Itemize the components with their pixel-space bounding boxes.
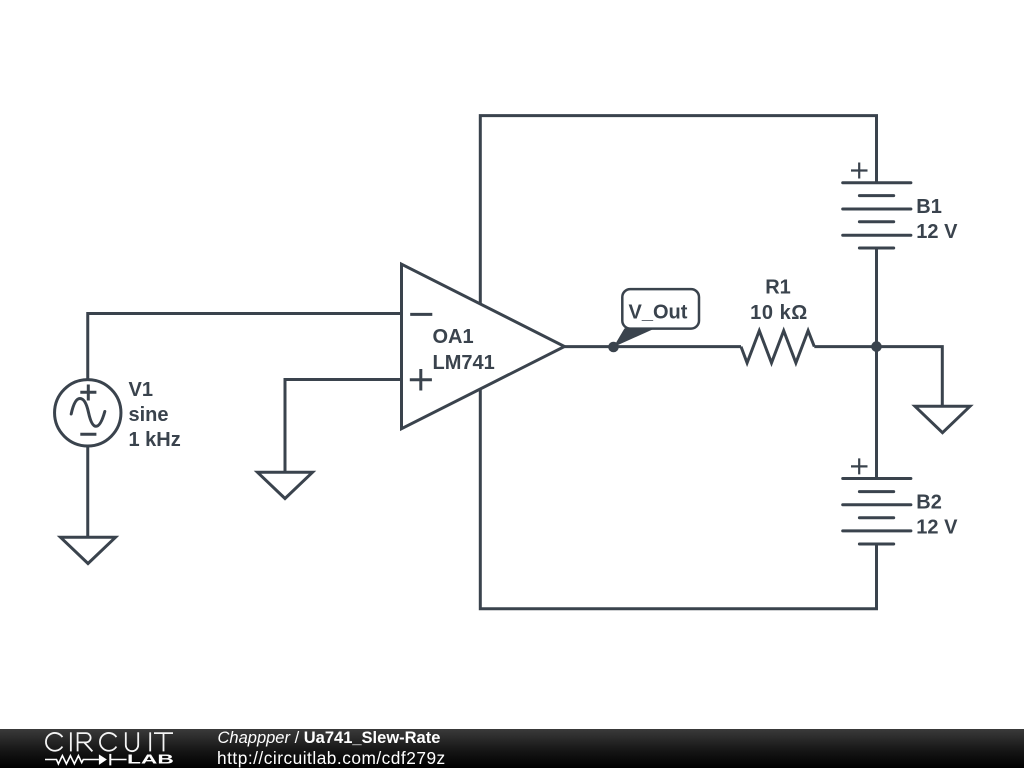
svg-text:LM741: LM741: [433, 352, 495, 374]
svg-text:LAB: LAB: [127, 752, 174, 766]
svg-text:12 V: 12 V: [916, 517, 958, 539]
svg-text:B1: B1: [916, 196, 942, 218]
svg-text:10 kΩ: 10 kΩ: [750, 302, 808, 324]
svg-text:R1: R1: [765, 277, 791, 299]
svg-text:OA1: OA1: [433, 326, 474, 348]
svg-text:V1: V1: [129, 379, 153, 401]
svg-text:sine: sine: [129, 404, 169, 426]
svg-text:V_Out: V_Out: [629, 302, 688, 324]
svg-text:B2: B2: [916, 492, 942, 514]
svg-text:12 V: 12 V: [916, 221, 958, 243]
svg-text:1 kHz: 1 kHz: [129, 429, 181, 451]
